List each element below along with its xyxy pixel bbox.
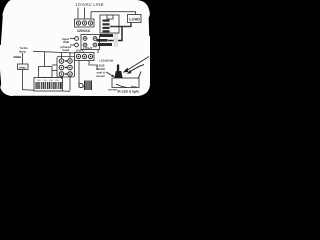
svg-text:Input: Input (63, 48, 70, 52)
svg-text:relay: relay (19, 65, 26, 69)
svg-text:120VAC: 120VAC (77, 29, 91, 33)
svg-text:LOAD: LOAD (129, 18, 140, 22)
svg-text:120VAC LINE: 120VAC LINE (75, 2, 104, 7)
svg-text:lens: lens (131, 85, 137, 89)
svg-text:LED BEAM: LED BEAM (100, 60, 114, 63)
svg-text:sensor: sensor (96, 74, 106, 78)
svg-text:lamp: lamp (19, 50, 26, 54)
svg-text:12VDC: 12VDC (76, 49, 85, 53)
svg-text:IR LED & light: IR LED & light (118, 90, 140, 94)
svg-text:USB: USB (63, 40, 69, 44)
